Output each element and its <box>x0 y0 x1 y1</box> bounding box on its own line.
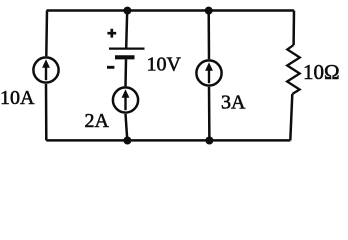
label 10 ohm <box>303 60 340 84</box>
wire battery to 2A source <box>124 59 127 86</box>
svg-text:2A: 2A <box>85 110 110 132</box>
battery V1 10V plus plate <box>109 47 145 49</box>
current source I2 2A <box>113 87 138 112</box>
wire 3A branch upper <box>207 11 210 60</box>
wire left lower <box>45 84 48 140</box>
battery V1 10V minus plate <box>115 55 135 59</box>
label 2A <box>85 110 110 132</box>
node dot bottom battery branch <box>123 137 131 145</box>
node dot top 3A branch <box>205 7 213 15</box>
plus sign <box>107 29 116 38</box>
label 3A <box>221 92 246 114</box>
wire battery branch upper <box>126 11 127 48</box>
node dot top battery branch <box>123 7 131 15</box>
minus sign <box>107 66 114 69</box>
current source I1 10A <box>33 57 58 82</box>
wire bottom <box>46 139 290 142</box>
current source I3 3A <box>196 60 221 85</box>
wire 2A source to bottom <box>126 114 128 141</box>
label 10A <box>0 87 35 109</box>
wire left upper <box>45 11 48 57</box>
wire top <box>47 9 295 12</box>
svg-text:3A: 3A <box>221 92 246 114</box>
wire right upper <box>292 11 295 46</box>
wire right lower <box>290 94 292 140</box>
svg-text:10A: 10A <box>0 87 35 109</box>
svg-text:10V: 10V <box>147 54 182 76</box>
label 10V <box>147 54 182 76</box>
node dot bottom 3A branch <box>205 137 213 145</box>
resistor R1 10 ohm <box>287 45 300 94</box>
svg-text:10Ω: 10Ω <box>303 60 340 84</box>
wire 3A branch lower <box>208 87 211 141</box>
